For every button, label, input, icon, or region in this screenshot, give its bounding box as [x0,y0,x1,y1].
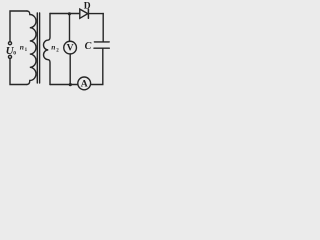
transformer core line right [39,13,41,83]
capacitor C bottom plate [94,47,109,49]
wire bottom-left (primary bottom to source) [10,59,27,85]
svg-text:C: C [85,41,92,52]
voltmeter V circle [64,41,77,54]
node junction top (diode branch / voltmeter) [68,12,71,15]
diode D triangle [80,9,88,18]
wire voltmeter branch lower [69,54,71,85]
wire right branch upper (to capacitor) [102,14,104,42]
svg-text:0: 0 [13,51,16,57]
wire right branch lower (capacitor to bottom) [91,48,103,84]
svg-text:V: V [67,43,74,54]
svg-text:A: A [81,78,88,89]
terminal upper (U0 +) [8,42,11,45]
diode D cathode bar [87,9,89,18]
transformer core line left [36,13,38,83]
svg-text:n: n [51,42,55,51]
secondary coil n2 winding with leads [43,14,50,85]
wire bottom (ammeter to voltmeter junction and secondary) [50,84,78,86]
svg-text:n: n [20,42,24,51]
wire top (secondary to diode) [50,13,80,15]
capacitor C top plate [94,41,109,43]
wire voltmeter branch upper [69,14,71,41]
primary coil n1 winding [27,11,36,85]
wire diode to right corner [88,13,103,15]
svg-text:D: D [84,1,91,11]
wire top-left (source to primary top) [10,11,27,42]
ammeter A circle [78,77,91,90]
node junction bottom (voltmeter / bottom wire) [69,83,72,86]
terminal lower (U0 -) [8,55,11,58]
